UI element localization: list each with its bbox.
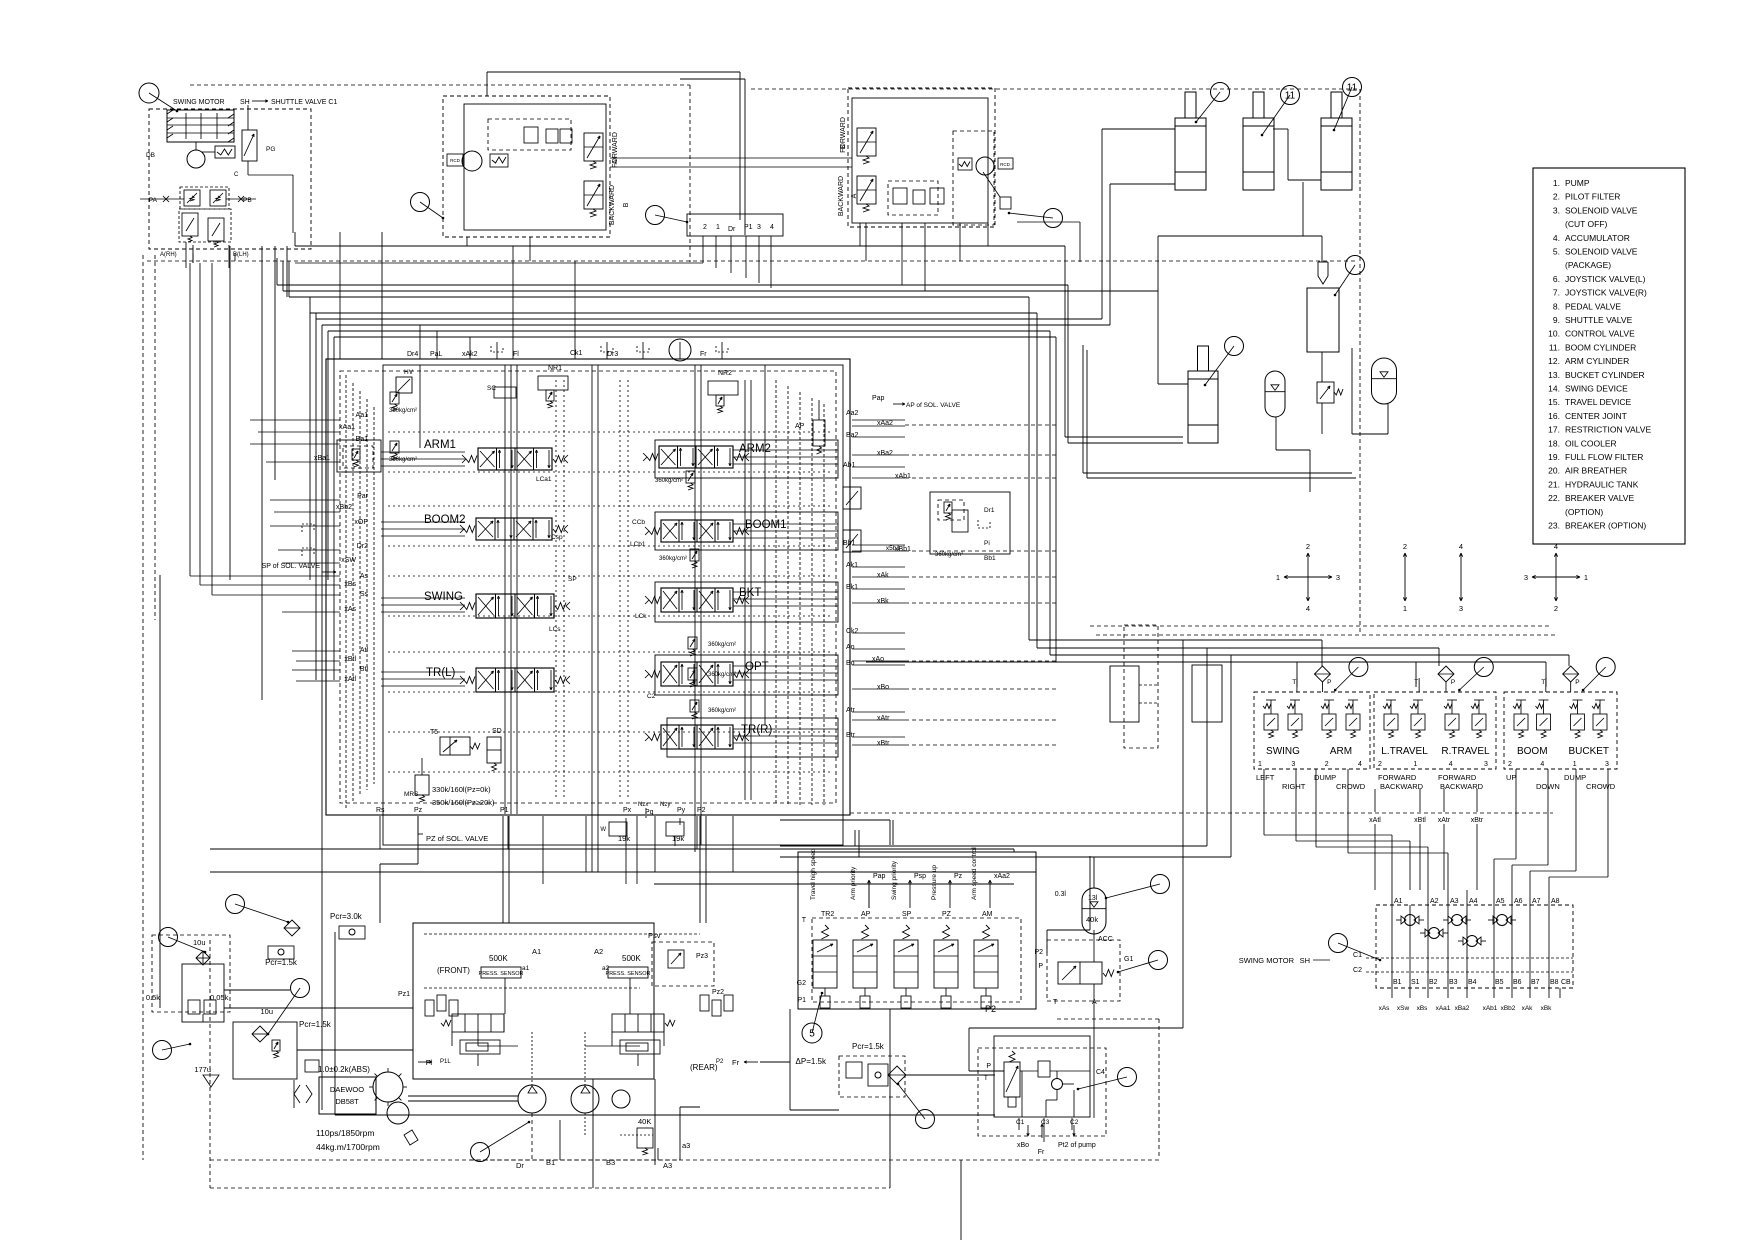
svg-text:ARM2: ARM2 — [739, 443, 771, 455]
svg-text:xBs: xBs — [1417, 1005, 1429, 1012]
svg-text:1: 1 — [1584, 573, 1588, 582]
svg-text:Ao: Ao — [846, 644, 855, 651]
svg-text:1: 1 — [1573, 761, 1577, 768]
svg-text:Aa1: Aa1 — [356, 412, 369, 419]
svg-text:a1: a1 — [522, 965, 530, 972]
svg-text:20.: 20. — [1548, 466, 1560, 476]
svg-text:xBk: xBk — [877, 598, 889, 605]
svg-text:Psp: Psp — [914, 873, 926, 880]
svg-text:SWING DEVICE: SWING DEVICE — [1565, 384, 1628, 394]
svg-text:Travel high speed: Travel high speed — [810, 848, 817, 900]
svg-text:Nzy: Nzy — [660, 802, 670, 808]
svg-text:xBs: xBs — [344, 581, 356, 588]
svg-text:4.: 4. — [1553, 233, 1560, 243]
svg-text:xBtr: xBtr — [877, 740, 890, 747]
svg-text:7.: 7. — [1553, 288, 1560, 298]
svg-text:9.: 9. — [1553, 315, 1560, 325]
svg-text:11: 11 — [1347, 83, 1358, 94]
svg-text:Btl: Btl — [360, 666, 369, 673]
svg-text:SH: SH — [240, 99, 250, 106]
svg-text:xAb1: xAb1 — [1483, 1005, 1498, 1012]
svg-text:Arm speed control: Arm speed control — [971, 847, 978, 900]
svg-text:Pz: Pz — [414, 807, 423, 814]
svg-text:SH: SH — [1300, 956, 1310, 965]
svg-text:T: T — [802, 917, 807, 924]
svg-text:a3: a3 — [682, 1141, 690, 1150]
svg-text:C1: C1 — [1353, 952, 1362, 959]
svg-text:S1: S1 — [1411, 979, 1420, 986]
svg-text:500K: 500K — [622, 954, 641, 963]
svg-text:3: 3 — [1291, 761, 1295, 768]
svg-text:P: P — [1451, 679, 1455, 686]
svg-text:HYDRAULIC TANK: HYDRAULIC TANK — [1565, 479, 1639, 489]
svg-text:4: 4 — [1449, 761, 1453, 768]
svg-text:3: 3 — [757, 224, 761, 231]
svg-text:xAs: xAs — [344, 606, 356, 613]
svg-text:2: 2 — [1403, 542, 1407, 551]
svg-text:Aa2: Aa2 — [846, 410, 859, 417]
svg-text:SWING: SWING — [1266, 746, 1300, 757]
svg-text:P1: P1 — [797, 997, 806, 1004]
svg-text:RESTRICTION VALVE: RESTRICTION VALVE — [1565, 425, 1651, 435]
svg-text:xAb1: xAb1 — [895, 473, 911, 480]
svg-text:2: 2 — [1306, 542, 1310, 551]
svg-text:AP of SOL. VALVE: AP of SOL. VALVE — [906, 402, 961, 409]
svg-text:C2: C2 — [647, 693, 656, 700]
svg-text:40k: 40k — [1086, 915, 1098, 924]
svg-text:0.3l: 0.3l — [1055, 891, 1067, 898]
svg-text:Bk1: Bk1 — [846, 584, 858, 591]
svg-text:OIL COOLER: OIL COOLER — [1565, 438, 1617, 448]
svg-text:13l: 13l — [1088, 895, 1098, 902]
svg-text:2.: 2. — [1553, 192, 1560, 202]
svg-text:2: 2 — [1508, 761, 1512, 768]
svg-text:5.: 5. — [1553, 247, 1560, 257]
svg-text:Pz2: Pz2 — [712, 989, 724, 996]
svg-text:MRS: MRS — [404, 791, 419, 798]
svg-text:P2: P2 — [985, 1004, 996, 1014]
svg-text:DB: DB — [146, 152, 155, 159]
svg-text:AM: AM — [982, 911, 993, 918]
svg-text:ARM: ARM — [1330, 746, 1352, 757]
svg-text:T: T — [1292, 679, 1296, 686]
svg-text:Ba1: Ba1 — [356, 436, 369, 443]
svg-text:LEFT: LEFT — [1256, 773, 1275, 782]
svg-text:TR(R): TR(R) — [741, 724, 772, 736]
svg-text:SC: SC — [487, 385, 496, 392]
svg-text:T5: T5 — [430, 729, 438, 736]
svg-text:5: 5 — [809, 1029, 815, 1040]
svg-text:Btr: Btr — [846, 732, 856, 739]
svg-text:T: T — [984, 1075, 989, 1082]
svg-text:Fr: Fr — [700, 351, 707, 358]
svg-text:xSW: xSW — [341, 557, 356, 564]
svg-text:P: P — [1327, 679, 1331, 686]
svg-text:P2: P2 — [1034, 949, 1043, 956]
svg-text:L.TRAVEL: L.TRAVEL — [1381, 746, 1428, 757]
svg-text:P: P — [1038, 963, 1043, 970]
svg-text:B3: B3 — [1449, 979, 1458, 986]
svg-text:SP: SP — [568, 576, 577, 583]
svg-text:4: 4 — [1459, 542, 1463, 551]
svg-text:xAa2: xAa2 — [994, 873, 1010, 880]
svg-text:SD: SD — [492, 728, 502, 735]
svg-text:Px: Px — [623, 807, 632, 814]
svg-text:PRESS. SENSOR: PRESS. SENSOR — [479, 971, 524, 977]
svg-text:Csp: Csp — [551, 534, 563, 541]
svg-text:BREAKER VALVE: BREAKER VALVE — [1565, 493, 1634, 503]
svg-text:AP: AP — [861, 911, 871, 918]
svg-text:Ss: Ss — [360, 591, 369, 598]
svg-text:A: A — [612, 159, 619, 164]
svg-text:(REAR): (REAR) — [690, 1063, 718, 1072]
svg-text:A7: A7 — [1532, 898, 1541, 905]
svg-text:T: T — [1053, 999, 1058, 1006]
svg-text:PUMP: PUMP — [1565, 178, 1590, 188]
svg-text:ΔP=1.5k: ΔP=1.5k — [796, 1057, 827, 1066]
svg-text:B5: B5 — [1495, 979, 1504, 986]
svg-text:NR2: NR2 — [718, 370, 732, 377]
svg-text:Bb1: Bb1 — [984, 555, 996, 562]
svg-text:xBb2: xBb2 — [336, 504, 352, 511]
svg-text:177u: 177u — [194, 1065, 211, 1074]
svg-text:Fl: Fl — [513, 351, 519, 358]
svg-text:Fr: Fr — [732, 1058, 740, 1067]
svg-text:C: C — [234, 172, 239, 178]
svg-text:Pz1: Pz1 — [398, 991, 410, 998]
svg-text:JOYSTICK VALVE(L): JOYSTICK VALVE(L) — [1565, 274, 1646, 284]
svg-text:360kg/cm²: 360kg/cm² — [659, 556, 687, 562]
svg-text:DB58T: DB58T — [335, 1097, 359, 1106]
svg-text:ACCUMULATOR: ACCUMULATOR — [1565, 233, 1630, 243]
svg-text:BACKWARD: BACKWARD — [609, 185, 616, 225]
svg-text:Pcr=3.0k: Pcr=3.0k — [330, 912, 363, 921]
svg-text:P1: P1 — [500, 807, 509, 814]
svg-text:SP: SP — [902, 911, 912, 918]
svg-text:360kg/cm²: 360kg/cm² — [708, 672, 736, 678]
svg-text:xBtl: xBtl — [344, 656, 356, 663]
svg-text:B7: B7 — [1531, 979, 1540, 986]
svg-text:B4: B4 — [1468, 979, 1477, 986]
svg-text:Dr: Dr — [728, 226, 736, 233]
svg-text:B3: B3 — [606, 1158, 615, 1167]
svg-text:PA: PA — [149, 197, 158, 204]
svg-text:SHUTTLE VALVE: SHUTTLE VALVE — [1565, 315, 1633, 325]
svg-text:CCb: CCb — [632, 519, 645, 526]
svg-text:21.: 21. — [1548, 479, 1560, 489]
svg-text:P: P — [1575, 679, 1579, 686]
svg-text:4: 4 — [1358, 761, 1362, 768]
svg-text:BOOM CYLINDER: BOOM CYLINDER — [1565, 342, 1636, 352]
svg-text:10.: 10. — [1548, 329, 1560, 339]
svg-text:Ak1: Ak1 — [846, 562, 858, 569]
svg-text:Ab1: Ab1 — [843, 462, 856, 469]
svg-text:SWING: SWING — [424, 591, 463, 603]
svg-text:B1: B1 — [546, 1158, 555, 1167]
svg-text:xBtr: xBtr — [1471, 817, 1484, 824]
svg-text:360kg/cm²: 360kg/cm² — [935, 552, 963, 558]
svg-text:SOLENOID VALVE: SOLENOID VALVE — [1565, 205, 1638, 215]
svg-text:B6: B6 — [1513, 979, 1522, 986]
svg-text:xAa1: xAa1 — [1436, 1005, 1451, 1012]
svg-text:BOOM: BOOM — [1517, 746, 1548, 757]
svg-text:2: 2 — [1378, 761, 1382, 768]
svg-text:xBk: xBk — [1541, 1005, 1553, 1012]
svg-text:4: 4 — [1306, 604, 1310, 613]
svg-text:A4: A4 — [1469, 898, 1478, 905]
svg-text:xOP: xOP — [354, 519, 368, 526]
svg-text:1: 1 — [1258, 761, 1262, 768]
svg-text:(CUT OFF): (CUT OFF) — [1565, 219, 1608, 229]
svg-text:BUCKET CYLINDER: BUCKET CYLINDER — [1565, 370, 1645, 380]
svg-text:Fr: Fr — [1038, 1149, 1045, 1156]
svg-text:(PACKAGE): (PACKAGE) — [1565, 260, 1611, 270]
svg-text:Atr: Atr — [846, 707, 856, 714]
svg-text:360kg/cm²: 360kg/cm² — [389, 408, 417, 414]
svg-text:19.: 19. — [1548, 452, 1560, 462]
svg-text:PZ of SOL. VALVE: PZ of SOL. VALVE — [426, 834, 488, 843]
svg-text:SWING MOTOR: SWING MOTOR — [1239, 956, 1295, 965]
svg-text:xAk: xAk — [1522, 1005, 1534, 1012]
svg-text:Pap: Pap — [872, 395, 885, 402]
svg-text:G1: G1 — [1124, 956, 1133, 963]
svg-text:4: 4 — [1554, 542, 1558, 551]
svg-text:xAk: xAk — [877, 572, 889, 579]
svg-text:3: 3 — [1605, 761, 1609, 768]
svg-text:TR2: TR2 — [821, 911, 834, 918]
svg-text:Pressure up: Pressure up — [931, 865, 938, 900]
svg-text:360kg/cm²: 360kg/cm² — [389, 457, 417, 463]
svg-text:13.: 13. — [1548, 370, 1560, 380]
svg-text:11: 11 — [1285, 91, 1296, 102]
svg-text:TR(L): TR(L) — [426, 667, 456, 679]
svg-text:FORWARD: FORWARD — [1438, 773, 1477, 782]
svg-text:xBa2: xBa2 — [877, 450, 893, 457]
svg-text:A3: A3 — [663, 1161, 672, 1170]
svg-text:1: 1 — [716, 224, 720, 231]
svg-text:G2: G2 — [797, 980, 806, 987]
svg-text:360kg/cm²: 360kg/cm² — [655, 478, 683, 484]
svg-text:3: 3 — [1524, 573, 1528, 582]
svg-text:R.TRAVEL: R.TRAVEL — [1441, 746, 1490, 757]
svg-text:As: As — [360, 573, 369, 580]
svg-text:500K: 500K — [489, 954, 508, 963]
svg-text:19k: 19k — [672, 834, 684, 843]
svg-text:Arm priority: Arm priority — [850, 866, 857, 900]
svg-text:Ba2: Ba2 — [846, 432, 859, 439]
svg-text:Dr2: Dr2 — [357, 543, 368, 550]
svg-text:P1L: P1L — [440, 1059, 451, 1065]
svg-text:ACC: ACC — [1098, 936, 1113, 943]
svg-text:C2: C2 — [1070, 1119, 1079, 1126]
svg-text:Rs: Rs — [376, 807, 385, 814]
svg-text:SP of SOL. VALVE: SP of SOL. VALVE — [262, 563, 321, 570]
svg-text:2: 2 — [703, 224, 707, 231]
svg-text:19k: 19k — [618, 834, 630, 843]
svg-text:B: B — [623, 202, 630, 207]
svg-text:Pz3: Pz3 — [696, 953, 708, 960]
svg-text:Dr4: Dr4 — [407, 351, 418, 358]
svg-text:3.: 3. — [1553, 205, 1560, 215]
svg-text:DUMP: DUMP — [1564, 773, 1586, 782]
svg-text:14.: 14. — [1548, 384, 1560, 394]
svg-text:3: 3 — [1336, 573, 1340, 582]
svg-text:Bb1: Bb1 — [843, 540, 856, 547]
svg-text:NR1: NR1 — [548, 365, 562, 372]
svg-text:xBb2: xBb2 — [1501, 1005, 1516, 1012]
svg-text:Ck1: Ck1 — [570, 350, 583, 357]
svg-text:B2: B2 — [1429, 979, 1438, 986]
svg-text:10u: 10u — [193, 938, 206, 947]
svg-text:BKT: BKT — [739, 587, 761, 599]
svg-text:23.: 23. — [1548, 521, 1560, 531]
svg-text:DUMP: DUMP — [1314, 773, 1336, 782]
svg-text:PILOT FILTER: PILOT FILTER — [1565, 192, 1620, 202]
svg-text:xBtl: xBtl — [1414, 817, 1426, 824]
svg-text:PEDAL VALVE: PEDAL VALVE — [1565, 301, 1621, 311]
svg-text:RCD: RCD — [450, 158, 460, 163]
svg-text:A6: A6 — [1514, 898, 1523, 905]
svg-text:xAa1: xAa1 — [339, 424, 355, 431]
svg-text:FORWARD: FORWARD — [1378, 773, 1417, 782]
svg-text:BREAKER (OPTION): BREAKER (OPTION) — [1565, 521, 1646, 531]
svg-text:A2: A2 — [1430, 898, 1439, 905]
svg-text:Dr1: Dr1 — [984, 507, 995, 514]
svg-text:xSw: xSw — [1397, 1005, 1410, 1012]
svg-text:360kg/cm²: 360kg/cm² — [708, 642, 736, 648]
svg-text:C4: C4 — [1096, 1069, 1105, 1076]
svg-text:CB: CB — [1561, 979, 1571, 986]
svg-text:Swing priority: Swing priority — [891, 860, 898, 900]
svg-text:Pcr=1.5k: Pcr=1.5k — [299, 1020, 332, 1029]
svg-text:BUCKET: BUCKET — [1568, 746, 1609, 757]
svg-text:xAtr: xAtr — [877, 715, 890, 722]
svg-text:Py: Py — [677, 807, 686, 814]
svg-text:3: 3 — [1459, 604, 1463, 613]
svg-text:C2: C2 — [1353, 967, 1362, 974]
svg-text:0.05k: 0.05k — [210, 993, 229, 1002]
svg-text:SOLENOID VALVE: SOLENOID VALVE — [1565, 247, 1638, 257]
svg-text:Dr: Dr — [516, 1161, 524, 1170]
svg-text:A(RH): A(RH) — [160, 252, 177, 258]
svg-text:A3: A3 — [1450, 898, 1459, 905]
svg-text:12.: 12. — [1548, 356, 1560, 366]
svg-text:HV: HV — [404, 369, 414, 376]
svg-text:A5: A5 — [1496, 898, 1505, 905]
svg-text:RCD: RCD — [1000, 162, 1010, 167]
svg-text:CROWD: CROWD — [1336, 782, 1366, 791]
svg-text:PB: PB — [243, 197, 252, 204]
svg-text:16.: 16. — [1548, 411, 1560, 421]
svg-text:BOOM2: BOOM2 — [424, 514, 466, 526]
svg-text:AIR BREATHER: AIR BREATHER — [1565, 466, 1627, 476]
svg-text:W: W — [600, 827, 606, 833]
svg-text:CROWD: CROWD — [1586, 782, 1616, 791]
svg-text:2: 2 — [1554, 604, 1558, 613]
svg-text:0.5k: 0.5k — [146, 993, 160, 1002]
svg-text:22.: 22. — [1548, 493, 1560, 503]
svg-text:PZ: PZ — [942, 911, 952, 918]
svg-text:Pap: Pap — [873, 873, 886, 880]
svg-text:PG: PG — [266, 146, 275, 153]
svg-text:18.: 18. — [1548, 438, 1560, 448]
svg-text:PRESS. SENSOR: PRESS. SENSOR — [606, 971, 651, 977]
svg-text:LCa1: LCa1 — [536, 476, 552, 483]
svg-text:T: T — [1541, 679, 1545, 686]
svg-text:A: A — [1092, 999, 1097, 1006]
svg-text:LCb1: LCb1 — [630, 541, 646, 548]
svg-text:Par: Par — [357, 493, 369, 500]
svg-text:1: 1 — [1413, 761, 1417, 768]
svg-text:BACKWARD: BACKWARD — [838, 176, 845, 216]
svg-text:LCk: LCk — [635, 613, 647, 620]
svg-text:CENTER JOINT: CENTER JOINT — [1565, 411, 1627, 421]
svg-text:xBo: xBo — [1017, 1142, 1029, 1149]
svg-text:xBo: xBo — [877, 684, 889, 691]
svg-text:ARM CYLINDER: ARM CYLINDER — [1565, 356, 1629, 366]
svg-text:PaL: PaL — [430, 351, 443, 358]
svg-text:11.: 11. — [1549, 342, 1560, 352]
svg-text:A2: A2 — [594, 947, 603, 956]
svg-text:(FRONT): (FRONT) — [437, 966, 470, 975]
svg-text:44kg.m/1700rpm: 44kg.m/1700rpm — [316, 1142, 380, 1152]
svg-text:JOYSTICK VALVE(R): JOYSTICK VALVE(R) — [1565, 288, 1647, 298]
svg-text:UP: UP — [1506, 773, 1516, 782]
svg-text:xBa2: xBa2 — [1455, 1005, 1470, 1012]
svg-text:A1: A1 — [532, 947, 541, 956]
svg-text:3: 3 — [1484, 761, 1488, 768]
svg-text:Atl: Atl — [360, 647, 369, 654]
svg-text:A1: A1 — [1394, 898, 1403, 905]
svg-text:RIGHT: RIGHT — [1282, 782, 1306, 791]
svg-text:4: 4 — [770, 224, 774, 231]
svg-text:40K: 40K — [638, 1117, 651, 1126]
svg-text:BACKWARD: BACKWARD — [1380, 782, 1424, 791]
svg-text:1.0±0.2k(ABS): 1.0±0.2k(ABS) — [318, 1065, 370, 1074]
svg-text:C1: C1 — [1016, 1119, 1025, 1126]
svg-text:2: 2 — [1325, 761, 1329, 768]
svg-text:Pz: Pz — [954, 873, 963, 880]
svg-text:CONTROL VALVE: CONTROL VALVE — [1565, 329, 1635, 339]
svg-text:110ps/1850rpm: 110ps/1850rpm — [316, 1128, 374, 1138]
svg-text:FULL FLOW FILTER: FULL FLOW FILTER — [1565, 452, 1643, 462]
svg-text:4: 4 — [1540, 761, 1544, 768]
svg-text:B: B — [840, 144, 847, 149]
svg-text:Psv: Psv — [648, 931, 661, 940]
svg-text:P2: P2 — [697, 807, 706, 814]
svg-text:B8: B8 — [1550, 979, 1559, 986]
svg-text:1: 1 — [1403, 604, 1407, 613]
svg-text:17.: 17. — [1548, 425, 1560, 435]
svg-text:xAtl: xAtl — [1369, 817, 1381, 824]
svg-text:xAtl: xAtl — [344, 676, 356, 683]
svg-text:A8: A8 — [1551, 898, 1560, 905]
svg-text:Pi: Pi — [984, 540, 990, 547]
svg-text:330k/160l(Pz=0k): 330k/160l(Pz=0k) — [432, 785, 491, 794]
svg-text:15.: 15. — [1548, 397, 1560, 407]
svg-text:ARM1: ARM1 — [424, 439, 456, 451]
svg-text:LCs: LCs — [549, 626, 561, 633]
svg-text:1: 1 — [1276, 573, 1280, 582]
svg-text:Ck2: Ck2 — [846, 628, 859, 635]
svg-text:Pt2 of pump: Pt2 of pump — [1058, 1142, 1096, 1149]
svg-text:B1: B1 — [1393, 979, 1402, 986]
svg-text:Nzx: Nzx — [638, 802, 648, 808]
svg-text:(OPTION): (OPTION) — [1565, 507, 1603, 517]
svg-text:SHUTTLE VALVE C1: SHUTTLE VALVE C1 — [271, 99, 337, 106]
svg-text:xAs: xAs — [1379, 1005, 1391, 1012]
svg-text:1.: 1. — [1553, 178, 1560, 188]
